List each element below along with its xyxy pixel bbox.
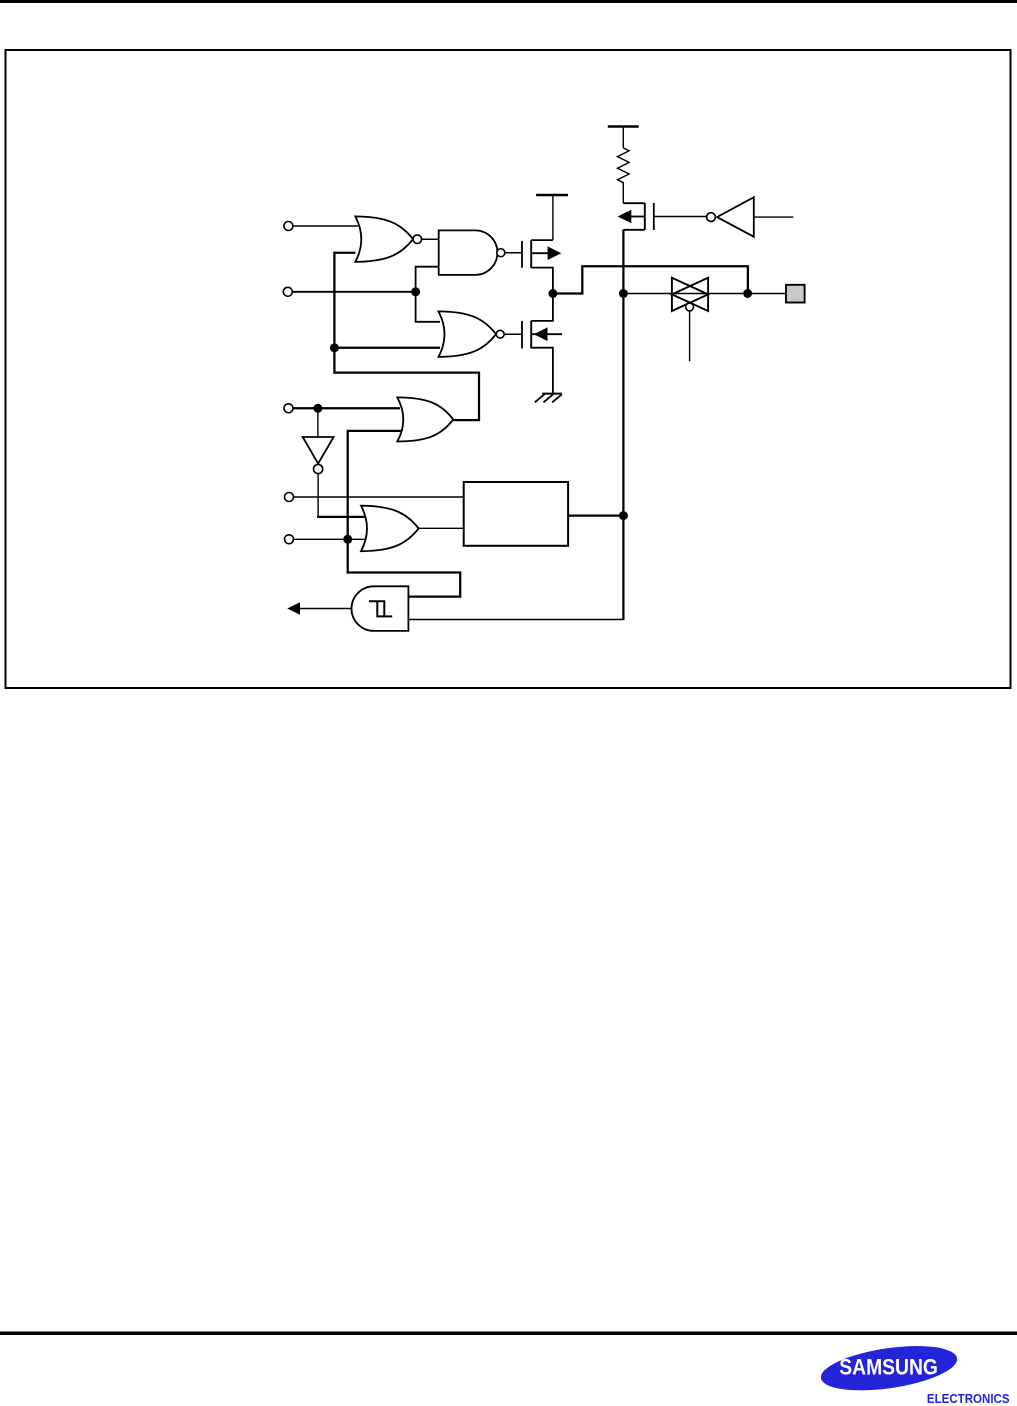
output arrow of U6 (287, 602, 300, 614)
delay box (464, 482, 568, 546)
junction CMOS output node (548, 289, 557, 298)
wire input3 to OR1 input A (293, 407, 400, 409)
wire NAND output to Q1 gate (505, 252, 522, 254)
input terminal 5 (285, 535, 294, 544)
Samsung logo ellipse (818, 1338, 960, 1397)
OR gate U5 (361, 506, 419, 552)
wire node B to NOR2 input B (334, 347, 440, 349)
transistor Q1 (PMOS of output pair) (522, 240, 553, 294)
top border bar (0, 0, 1017, 3)
bottom rule (0, 1332, 1017, 1336)
ground (535, 394, 562, 403)
junction node A (411, 287, 420, 296)
OR gate U4 (397, 397, 453, 441)
wire OR2 output to delay box (419, 527, 464, 529)
junction node C (313, 404, 322, 413)
wire T2 to resistor R1 (622, 127, 624, 148)
wire input1 to NOR1 (293, 225, 358, 227)
NOR gate U1 (355, 216, 413, 262)
svg-text:SAMSUNG: SAMSUNG (839, 1356, 938, 1380)
wire NOR1 input B / node B / OR1 output loop (334, 253, 479, 420)
wire main vertical net E (622, 230, 624, 620)
wire node A to NAND input B and NOR2 input A (416, 267, 440, 322)
transmission gate TG1 (672, 278, 708, 362)
wire NOR1 output to NAND input A (422, 238, 440, 240)
wire T1 to Q1 source (552, 195, 554, 240)
NOR gate U3 (439, 311, 497, 357)
input terminal 2 (283, 287, 292, 296)
inverter U8 (points down) (303, 437, 334, 474)
wire input4 to delay box (294, 496, 464, 498)
wire AND U6 output (299, 608, 352, 610)
input terminal 3 (284, 404, 293, 413)
wire net E to AND U6 input B (409, 619, 625, 621)
figure frame (6, 50, 1011, 688)
wire CMOS output jog over to pad node (553, 266, 748, 293)
resistor R1 (618, 148, 630, 203)
transistor Q3 (pull-up PMOS) (623, 203, 706, 230)
svg-text:ELECTRONICS: ELECTRONICS (927, 1392, 1010, 1406)
pad (786, 285, 805, 303)
wire input5 to node D (294, 538, 348, 540)
inverter U7 (points left) (707, 197, 794, 237)
AND gate U6 (mirrored, pulse qualifier) (351, 586, 408, 631)
wire OR1 input B / node D riser / AND U6 input A (348, 431, 461, 597)
input terminal 4 (285, 493, 294, 502)
junction node E on rail (619, 289, 628, 298)
wire input2 to node A (292, 291, 415, 293)
NAND gate U2 (439, 230, 498, 275)
Samsung logo wordmark (839, 1356, 938, 1380)
power rail T2 (608, 125, 639, 127)
junction node B (330, 343, 339, 352)
junction node F (619, 511, 628, 520)
wire node D to OR2 input B (348, 538, 366, 540)
power rail T1 (536, 194, 568, 196)
wire main rail node E to pad (627, 293, 786, 295)
junction node D (343, 535, 352, 544)
wire U8 output down (317, 474, 319, 517)
bubble of U1 (413, 235, 422, 244)
wire U8 output to OR2 input A (317, 516, 366, 518)
junction pad node (743, 289, 752, 298)
transistor Q2 (NMOS of output pair) (522, 294, 562, 394)
bubble of U3 (496, 330, 504, 338)
bubble of U2 (497, 249, 505, 257)
input terminal 1 (284, 222, 293, 231)
wire node C to inverter U8 input (317, 408, 319, 437)
wire delay box output to node F (568, 514, 623, 516)
wire NOR2 output to Q2 gate (504, 333, 522, 335)
